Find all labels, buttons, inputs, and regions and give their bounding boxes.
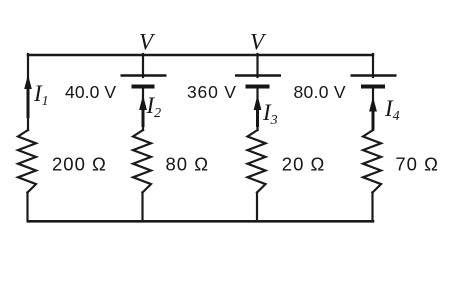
- wire branch2 bottom segment: [141, 193, 143, 222]
- battery B2 long plate: [121, 74, 167, 77]
- wire branch1 bottom segment: [26, 193, 28, 222]
- wire bottom bus: [28, 220, 373, 223]
- resistor R 20ohm zigzag: [248, 130, 266, 193]
- current arrow I4: [369, 97, 377, 130]
- svg-text:I4: I4: [384, 96, 400, 124]
- battery B3 long plate: [235, 74, 281, 77]
- battery B4 long plate: [351, 74, 397, 77]
- svg-text:20 Ω: 20 Ω: [282, 154, 326, 175]
- svg-text:80 Ω: 80 Ω: [166, 154, 210, 175]
- svg-text:80.0 V: 80.0 V: [294, 82, 346, 102]
- svg-text:I3: I3: [262, 100, 278, 128]
- svg-text:200 Ω: 200 Ω: [52, 154, 107, 175]
- wire branch4 bottom segment: [371, 193, 373, 222]
- wire top bus: [28, 54, 373, 57]
- svg-text:360 V: 360 V: [187, 82, 237, 102]
- battery B2 short plate: [132, 85, 155, 89]
- wire branch3 mid segment: [256, 87, 258, 131]
- current arrow I2: [139, 95, 147, 127]
- current arrow I1: [24, 75, 32, 119]
- wire branch2 mid segment: [142, 87, 144, 131]
- wire branch3 top stub: [256, 54, 258, 77]
- resistor R 200ohm zigzag: [18, 130, 36, 193]
- resistor R 80ohm zigzag: [133, 130, 151, 193]
- svg-text:V: V: [250, 30, 267, 55]
- wire branch3 bottom segment: [256, 193, 258, 222]
- wire branch4 mid segment: [372, 87, 374, 131]
- battery B3 short plate: [246, 85, 270, 89]
- wire branch2 top stub: [142, 54, 144, 77]
- svg-text:40.0 V: 40.0 V: [65, 82, 116, 102]
- wire branch4 top stub: [372, 54, 374, 77]
- svg-text:I1: I1: [33, 81, 49, 109]
- resistor R 70ohm zigzag: [363, 130, 381, 193]
- svg-text:70 Ω: 70 Ω: [395, 154, 439, 175]
- battery B4 short plate: [361, 85, 385, 89]
- svg-text:V: V: [139, 30, 156, 55]
- svg-text:I2: I2: [146, 93, 162, 121]
- current arrow I3: [254, 95, 262, 127]
- wire branch1 top segment: [27, 54, 29, 130]
